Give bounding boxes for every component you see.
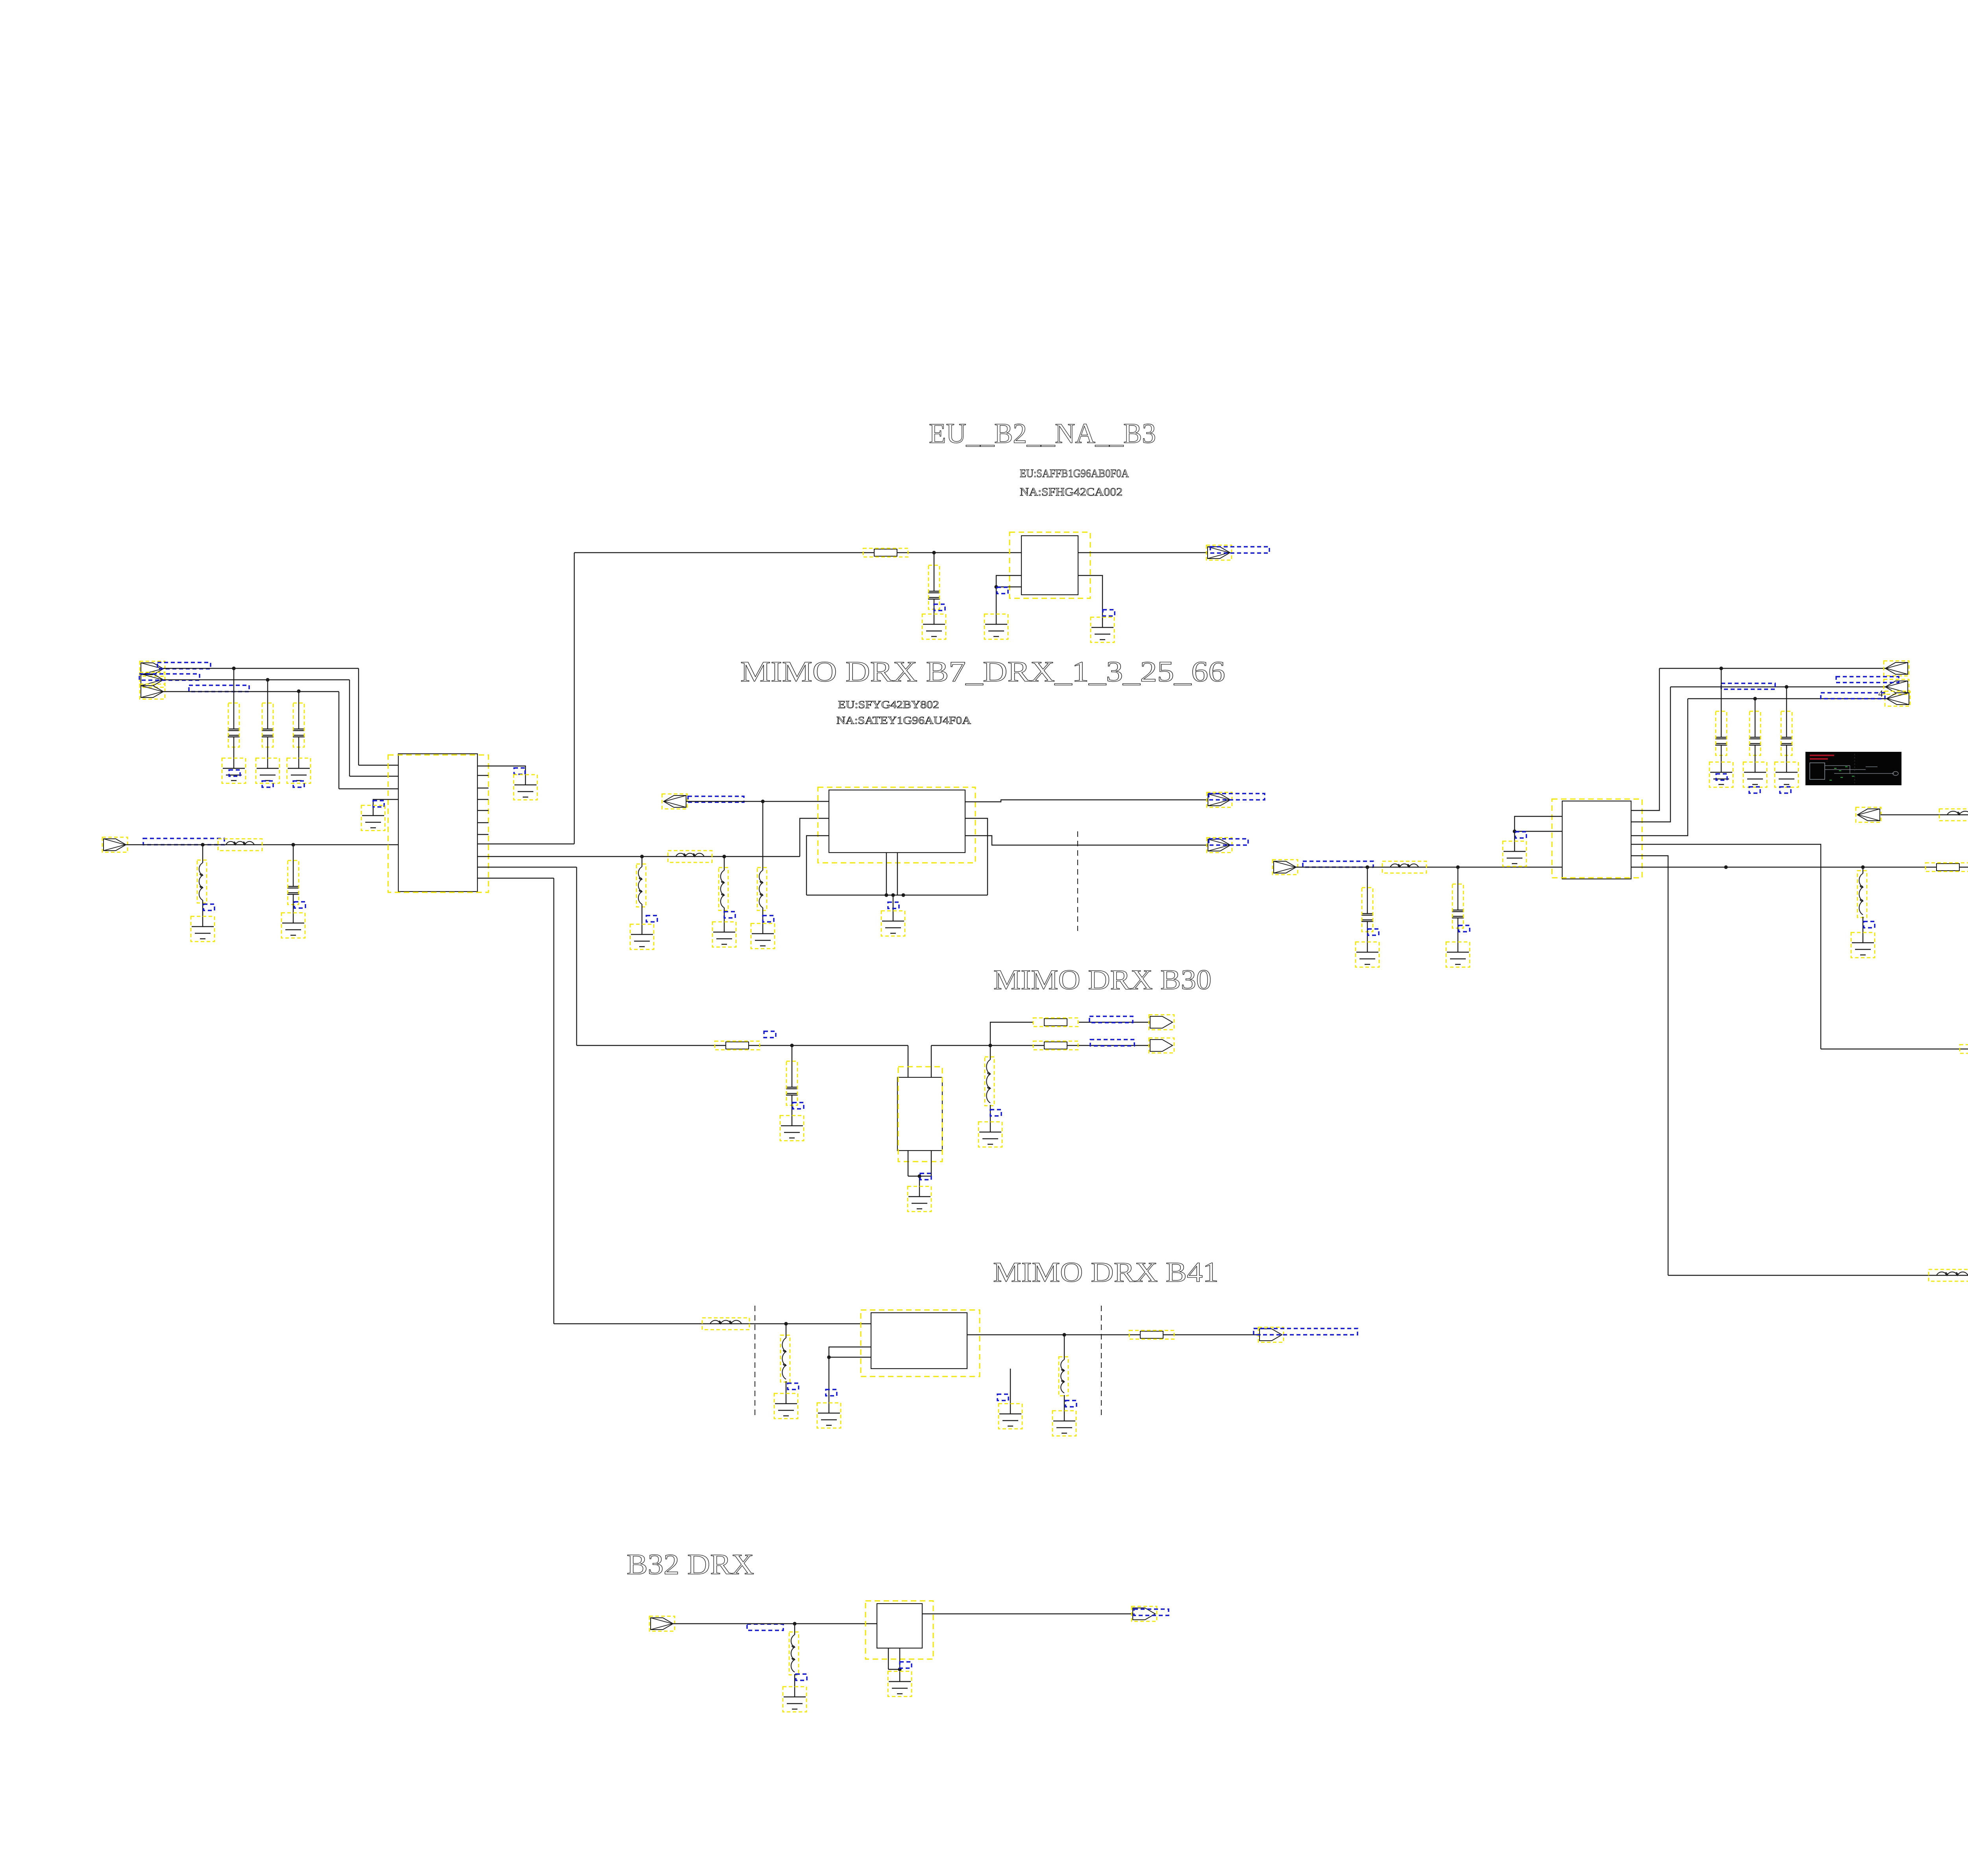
ground under C8 <box>1710 772 1732 784</box>
wire PRX B41 feed <box>1668 1275 1968 1276</box>
inductor L16 (shunt) <box>1064 1335 1065 1360</box>
net label box at L5 <box>724 912 735 918</box>
net label box at C4 <box>294 902 305 908</box>
node FL5 pin2L <box>827 1355 830 1359</box>
wire FL4 bottom pin join <box>908 1176 919 1177</box>
net label box EU_B2 out <box>1210 547 1269 553</box>
wire FL5 out <box>967 1334 1261 1335</box>
ground under L13 <box>979 1132 1001 1144</box>
net label box PRX input <box>1303 861 1373 867</box>
net label box PRX w3 <box>1821 693 1885 699</box>
capacitor C4 (shunt) <box>293 845 294 886</box>
U1 right pin stub 5 <box>477 822 488 823</box>
wire L6 riser crossing <box>762 801 763 870</box>
node ANT3/C3 <box>297 689 300 693</box>
wire FL5 pin3L <box>829 1357 871 1358</box>
net label box DRX B7 out2 <box>1209 839 1248 845</box>
connector arrow B32 out <box>1133 1608 1155 1620</box>
inductor L7 (series PRX) <box>1390 864 1419 867</box>
net label box FL2 gnd <box>888 902 899 908</box>
filter FL2 (MIMO DRX B7) <box>829 790 965 853</box>
connector arrow PRX w3 <box>1887 693 1909 705</box>
inductor L6 (shunt) <box>759 870 763 908</box>
wire FL2 out2 <box>965 836 1208 845</box>
net label box ANT1 <box>157 662 211 669</box>
wire ANT2 riser down <box>349 680 350 776</box>
net label box under C9 ground <box>1749 787 1760 793</box>
wire FL2 pin2R to gnd bus <box>965 818 988 895</box>
wire FL6 bottom join <box>888 1669 900 1670</box>
wire FL2 bus to gnd <box>893 895 893 921</box>
node FL4 gnd <box>917 1174 921 1178</box>
inductor L10 (shunt on PRX main) <box>1863 867 1863 873</box>
wire U2 left pin1 to gnd tie <box>1515 816 1562 831</box>
node arrow line / L6 <box>761 799 764 803</box>
net label box DRX B7 out1 <box>1209 794 1265 800</box>
ground FL5 bottom <box>999 1414 1021 1426</box>
filter FL6 (B32 DRX) <box>877 1604 922 1648</box>
wire B30 riser down <box>576 867 577 1045</box>
wire DRX B30 feed <box>577 1045 908 1046</box>
net label box at U1 decoupling <box>514 768 525 774</box>
svg-text:EU:SFYG42BY802: EU:SFYG42BY802 <box>838 699 939 710</box>
capacitor C2 <box>267 680 268 729</box>
svg-text:EU:SAFFB1G96AB0F0A: EU:SAFFB1G96AB0F0A <box>1020 468 1129 480</box>
net label box at U1 gnd pin <box>373 801 384 807</box>
inductor L2 (series on DRX input) <box>226 842 254 845</box>
net label box at C8 ground <box>1716 774 1727 780</box>
net label box at C6 <box>1368 929 1379 935</box>
filter FL4 (MIMO DRX B30) <box>897 1077 942 1151</box>
inset mini wires <box>1825 766 1894 773</box>
ground under C7 <box>1447 952 1469 964</box>
node ANT1/C1 <box>232 666 235 670</box>
connector J3 arrow (DRX ANT3) <box>141 686 163 697</box>
inductor L4 (series) <box>676 853 704 857</box>
svg-text:EU__B2__NA__B3: EU__B2__NA__B3 <box>929 418 1156 449</box>
net label box under C10 ground <box>1780 787 1791 793</box>
node FL2 bus gnd <box>891 893 895 897</box>
wire main out rise to FL2 pin2 <box>800 818 829 857</box>
inductor L5 (shunt) <box>724 857 725 870</box>
node w1/C8 <box>1719 666 1723 670</box>
net label box B32 out <box>1134 1609 1169 1615</box>
wire FL6 bottom pin B <box>899 1648 900 1669</box>
connector J2 arrow (DRX ANT2) <box>141 674 163 686</box>
ground under C10 <box>1776 772 1798 784</box>
wire FL4 bottom pin join B <box>919 1176 931 1177</box>
wire U1 left ground pin <box>373 799 398 816</box>
node DRX input/L1 <box>201 843 204 846</box>
net label box FL6 gnd <box>900 1662 912 1668</box>
ground FL5 left <box>818 1413 840 1425</box>
wire FL1 gnd down <box>996 587 997 624</box>
wire U2 riser pin B <box>1631 687 1670 822</box>
net label box FL5 bottom gnd <box>997 1394 1008 1401</box>
wire FL1 left lower pin A <box>996 575 1021 587</box>
inductor L1 (shunt) <box>202 845 203 863</box>
net label box FL1 left gnd <box>997 587 1008 594</box>
capacitor C7 <box>1458 867 1458 910</box>
inductor L8 (series PRX B7 in) <box>1947 811 1968 815</box>
node PRX/C6 <box>1365 865 1369 869</box>
net label box at L17 <box>796 1674 807 1680</box>
wire EU_B2 riser <box>574 553 575 844</box>
inductor L15 (shunt) <box>786 1324 786 1338</box>
ground under L5 <box>713 932 735 944</box>
filter FL1 (EU_B2_NA_B3) <box>1021 536 1078 595</box>
resistor R5 (B41 out) <box>1140 1331 1163 1338</box>
node B32/L17 <box>793 1622 796 1625</box>
net label box at L10 <box>1864 921 1875 928</box>
node main out / L5 <box>722 855 726 858</box>
antenna switch U2 <box>1562 801 1631 879</box>
ground FL1 left <box>985 624 1007 636</box>
svg-text:MIMO DRX B41: MIMO DRX B41 <box>993 1256 1219 1288</box>
wire FL2 gnd bus <box>806 895 988 895</box>
ground under L1 <box>192 927 214 939</box>
node B41/L15 <box>784 1322 788 1325</box>
inset green parts <box>1829 767 1854 780</box>
connector arrow B30 out1 <box>1150 1016 1173 1028</box>
svg-text:4: 4 <box>1878 689 1883 699</box>
wire FL6 bottom pin A <box>888 1648 889 1669</box>
svg-text:MIMO DRX B30: MIMO DRX B30 <box>993 964 1212 995</box>
net label box at L1 <box>203 904 215 910</box>
wire FL2 pin3L to gnd bus <box>806 836 829 895</box>
net label box under C3 ground <box>293 781 304 787</box>
wire EU_B2 line <box>574 552 1021 553</box>
node w2/C10 <box>1785 685 1788 688</box>
node B30 feed / C12 <box>790 1043 793 1047</box>
ground under C1 <box>223 768 245 781</box>
ground under L10 <box>1852 943 1874 955</box>
net label box FL1 right gnd <box>1103 610 1115 616</box>
wire PRX B30 feed <box>1821 1049 1968 1049</box>
wire FL2 bottom pin A <box>886 853 887 895</box>
wire FL4 bottom pin A <box>908 1151 908 1176</box>
wire FL6 gnd stub <box>899 1669 900 1682</box>
connector arrow PRX B7 in <box>1857 809 1880 821</box>
node U2 gnd tie <box>1513 829 1516 833</box>
capacitor C12 <box>792 1045 792 1087</box>
inductor L3 (shunt) <box>642 857 642 867</box>
inductor L18 (series PRX B41) <box>1937 1272 1968 1275</box>
ground at U1 decoupling <box>514 785 536 797</box>
inset mini IC outline <box>1810 763 1825 779</box>
connector arrow B30 out2 <box>1150 1040 1173 1051</box>
inset red text line 1 <box>1810 755 1834 756</box>
capacitor C5 <box>934 553 934 591</box>
page separator dashed line (B41 right) <box>1101 1306 1102 1417</box>
page separator dashed line (B41 left) <box>755 1306 755 1417</box>
wire FL1 left lower pin B <box>996 586 1021 587</box>
capacitor C1 <box>233 668 234 729</box>
svg-text:MIMO DRX B7_DRX_1_3_25_66: MIMO DRX B7_DRX_1_3_25_66 <box>740 656 1225 688</box>
node FL1 gnd join <box>994 585 998 588</box>
ground under L6 <box>752 934 774 946</box>
connector arrow PRX input <box>1274 861 1296 873</box>
filter FL5 (MIMO DRX B41) <box>871 1313 967 1369</box>
net label box under C2 ground <box>262 781 273 787</box>
wire B30 junction down <box>990 1045 991 1060</box>
U1 right pin stub 3 <box>477 799 488 800</box>
wire FL2 bottom pin B <box>897 853 898 895</box>
svg-text:NA:SFHG42CA002: NA:SFHG42CA002 <box>1020 486 1123 498</box>
net label box B30 out2 <box>1090 1040 1134 1046</box>
node main/L10 <box>1861 865 1864 869</box>
wire PRX w2 <box>1670 686 1885 687</box>
svg-text:B32 DRX: B32 DRX <box>627 1549 754 1581</box>
node B41 out / L16 <box>1062 1333 1066 1336</box>
node PRX/C7 <box>1456 865 1459 869</box>
wire B30 up branch <box>990 1022 1033 1045</box>
connector arrow DRX B7 out1 <box>1208 794 1230 806</box>
node EU_B2/C5 <box>932 551 936 554</box>
wire FL4 top pin B <box>931 1045 932 1077</box>
node U2 out <box>1724 865 1728 869</box>
node ANT2/C2 <box>266 678 269 681</box>
wire PRX B7 in <box>1881 814 1968 815</box>
connector J1 arrow (DRX ANT1) <box>141 663 163 675</box>
wire FL1 output <box>1078 552 1208 553</box>
wire DRX B7 arrow to FL2 <box>686 801 829 802</box>
wire B32 in <box>673 1623 877 1624</box>
U1 right pin stub 6 <box>477 834 488 835</box>
wire U2 gnd tie down <box>1514 831 1515 851</box>
inductor L17 (shunt) <box>794 1624 795 1635</box>
net label box at C1 ground <box>229 770 240 776</box>
ground under L15 <box>775 1404 797 1416</box>
capacitor C10 <box>1786 687 1787 737</box>
wire FL5 pin2L <box>829 1347 871 1413</box>
ground under C5 <box>923 624 945 636</box>
ground under L17 <box>784 1697 806 1709</box>
resistor R7 (B30 feed) <box>726 1042 749 1049</box>
net label box at L6 <box>763 916 774 922</box>
net label box B41 out <box>1254 1328 1358 1335</box>
antenna switch U1 <box>398 754 477 892</box>
wire U1 to EU_B2 riser <box>477 844 574 844</box>
wire FL4 top pin A <box>908 1045 908 1077</box>
ground under C12 <box>781 1126 803 1138</box>
ground at U1 left pin <box>362 816 384 828</box>
connector arrow EU_B2 out <box>1208 547 1230 559</box>
net label box at C7 <box>1459 925 1470 932</box>
wire ANT1 into U1 <box>359 765 398 766</box>
wire FL4 pinB to junction <box>931 1045 990 1046</box>
net label box at R7 <box>764 1031 776 1038</box>
U1 right pin stub 4 <box>477 810 488 811</box>
node FL6 gnd <box>898 1667 901 1671</box>
connector arrow B41 out <box>1260 1329 1282 1341</box>
resistor R3 (B30 out1) <box>1044 1019 1067 1026</box>
resistor R1 (EU_B2) <box>874 549 897 556</box>
node FL2 bus A <box>884 893 888 897</box>
wire ANT2 into U1 <box>350 776 398 777</box>
inset red text line 2 <box>1810 758 1828 760</box>
svg-text:NA:SATEY1G96AU4F0A: NA:SATEY1G96AU4F0A <box>836 714 971 726</box>
inductor L13 (shunt) <box>986 1060 990 1103</box>
net label box ANT3 <box>189 685 249 692</box>
wire DRX B41 feed <box>554 1323 871 1324</box>
connector arrow PRX w2 <box>1885 681 1908 693</box>
wire U1 pin to decoupling <box>477 766 525 785</box>
wire FL2 out1 <box>965 800 1208 802</box>
wire ANT3 riser down <box>338 692 339 789</box>
resistor R4 (B30 out2) <box>1044 1042 1067 1049</box>
wire R3 to arrow <box>1079 1022 1150 1023</box>
net label box PRX w2 left <box>1721 683 1775 689</box>
inset screenshot black box <box>1805 752 1901 785</box>
capacitor C3 <box>298 691 299 729</box>
wire U2 left pin2 to gnd tie <box>1515 831 1562 832</box>
inset mini circle <box>1893 771 1898 775</box>
net label box DRX input <box>143 838 224 845</box>
node B30 junction <box>988 1043 992 1047</box>
net label box at C5 <box>934 604 945 611</box>
connector arrow DRX B7 out2 <box>1208 839 1230 851</box>
ground under L3 <box>631 934 653 947</box>
wire ANT1 to riser <box>163 668 359 669</box>
wire ANT1 riser down <box>358 668 359 765</box>
net label box at L16 <box>1065 1401 1076 1407</box>
wire PRX w3 <box>1688 698 1887 699</box>
ground under C4 <box>282 923 304 935</box>
connector arrow PRX w1 <box>1885 662 1908 674</box>
ground under C6 <box>1356 952 1378 964</box>
wire FL5 bottom pin <box>1010 1369 1011 1414</box>
wire FL6 out <box>922 1613 1133 1614</box>
wire U2 to PRX B30 riser <box>1631 844 1821 1049</box>
page separator dashed line (DRX B7) <box>1077 831 1078 931</box>
wire ANT3 into U1 <box>339 788 398 789</box>
net label box at L3 <box>646 916 657 922</box>
wire B30 lower branch <box>990 1045 1150 1046</box>
inductor L14 (series B41) <box>710 1320 742 1324</box>
U1 right pin stub 2 <box>477 788 488 788</box>
ground at U2 left <box>1504 851 1526 864</box>
ground FL2 <box>882 921 904 933</box>
wire ANT2 to riser <box>163 679 350 680</box>
net label box at L15 <box>788 1383 799 1389</box>
ground FL4 <box>908 1197 930 1209</box>
wire U1 to B41 riser <box>477 878 554 879</box>
ground FL6 <box>889 1682 911 1694</box>
net label box ANT2 <box>139 674 200 680</box>
wire PRX input line <box>1296 867 1562 868</box>
wire PRX w1 <box>1659 668 1885 669</box>
wire FL4 bottom pin B <box>931 1151 932 1176</box>
net label box B30 out1 <box>1089 1016 1133 1023</box>
connector J4 arrow (DRX main input) <box>104 839 126 851</box>
resistor R2 (PRX main) <box>1937 864 1959 871</box>
wire ANT3 to riser <box>163 691 339 692</box>
net label box PRX w2 right <box>1836 677 1899 683</box>
ground under C2 <box>257 768 279 781</box>
capacitor C9 <box>1755 699 1755 737</box>
net label box FL4 gnd <box>920 1173 931 1180</box>
net label box DRX B7 out- <box>688 796 744 802</box>
inset vertical dashed middle <box>1854 754 1855 783</box>
capacitor C6 <box>1367 867 1368 914</box>
net label box at C12 <box>793 1103 804 1109</box>
wire U2 riser pin C <box>1631 699 1688 836</box>
ground FL1 right <box>1091 627 1113 640</box>
wire U2 to PRX B41 riser <box>1631 856 1668 1275</box>
wire FL4 gnd stub <box>919 1176 920 1197</box>
net label box at L13 <box>990 1110 1001 1116</box>
net label box FL5 left gnd <box>826 1389 837 1396</box>
wire U2 main out <box>1631 867 1968 868</box>
ground under C3 <box>288 768 310 781</box>
node DRX input/C4 <box>291 843 295 846</box>
connector arrow B32 in <box>651 1618 673 1630</box>
wire B41 riser down <box>553 878 554 1324</box>
connector arrow DRX B7 out- <box>664 796 686 807</box>
wire FL1 right lower pin <box>1078 575 1102 627</box>
node main out / L3 <box>640 855 644 858</box>
wire U1 to B30 riser <box>477 867 577 868</box>
ground under C9 <box>1744 772 1766 784</box>
net label box U2 gnd <box>1515 832 1526 838</box>
node w3/C9 <box>1753 697 1757 700</box>
capacitor C8 <box>1721 668 1722 737</box>
net label box B32 in <box>747 1624 783 1630</box>
wire U2 riser pin A <box>1631 668 1659 810</box>
U1 right pin stub 1 <box>477 775 488 776</box>
node FL2 bus B <box>901 893 905 897</box>
ground under L16 <box>1053 1421 1075 1433</box>
wire DRX input <box>126 844 398 845</box>
wire U1 main out <box>477 856 800 857</box>
